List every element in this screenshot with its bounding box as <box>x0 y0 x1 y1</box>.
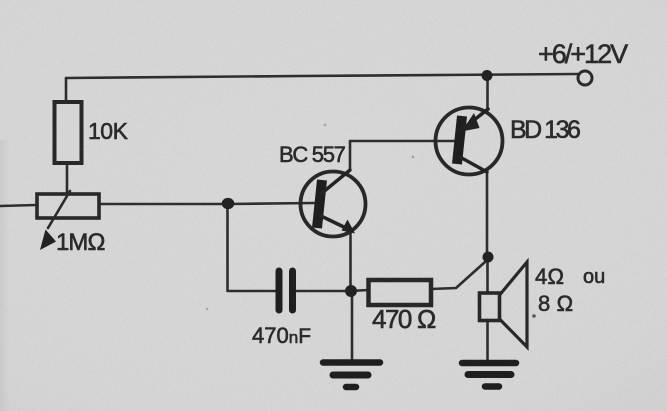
svg-text:470 Ω: 470 Ω <box>372 304 436 334</box>
svg-text:+6/+12V: +6/+12V <box>538 39 628 69</box>
svg-text:8 Ω: 8 Ω <box>538 291 573 316</box>
svg-text:10K: 10K <box>88 118 129 144</box>
svg-text:ou: ou <box>583 266 605 288</box>
svg-text:470nF: 470nF <box>252 323 311 348</box>
svg-text:BC 557: BC 557 <box>279 142 346 167</box>
svg-text:4Ω: 4Ω <box>535 264 564 289</box>
svg-text:1MΩ: 1MΩ <box>56 229 105 256</box>
svg-text:BD 136: BD 136 <box>510 116 580 144</box>
